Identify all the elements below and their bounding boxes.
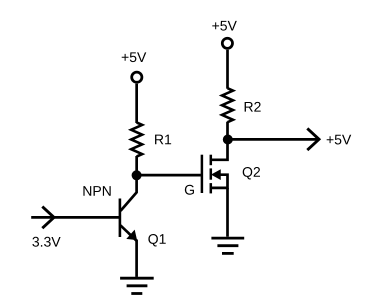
label Q2: [243, 167, 260, 179]
resistor R1: [131, 123, 142, 157]
wire (R1 bottom to node A): [135, 156, 138, 175]
output arrow (+5V): [307, 128, 319, 150]
resistor R2: [222, 88, 233, 122]
label +5V (right supply): [212, 21, 237, 31]
transistor Q1 base bar: [119, 199, 122, 238]
transistor Q2 channel segment 3 (source): [210, 183, 213, 193]
power terminal circle (left +5V): [132, 72, 142, 82]
power terminal circle (right +5V): [222, 38, 232, 48]
label G (gate pin): [185, 185, 194, 195]
wire (body stub down to source stub): [211, 175, 228, 188]
transistor Q2 channel segment 1 (drain): [210, 155, 213, 166]
wire (3.3V input to base): [31, 216, 120, 219]
wire (terminal to R1 top): [135, 84, 138, 123]
label 3.3V: [32, 237, 60, 247]
label Q1: [148, 234, 165, 246]
wire (node B to output arrow): [228, 138, 319, 141]
wire (emitter to ground): [135, 240, 138, 277]
wire (R2 bottom to node B): [226, 122, 229, 140]
label +5V (output): [327, 135, 352, 145]
node A junction dot: [132, 170, 142, 180]
ground (Q1 emitter): [120, 278, 154, 293]
wire (terminal to R2 top): [226, 50, 229, 89]
wire (node B down to Q2 drain stub): [211, 140, 228, 160]
transistor Q2 body arrowhead: [212, 170, 220, 179]
label R2: [245, 102, 261, 112]
wire (Q2 source to ground): [226, 188, 229, 237]
transistor Q2 gate plate: [201, 155, 204, 193]
input arrow (3.3V): [42, 207, 54, 229]
transistor Q1 emitter arrowhead: [128, 231, 137, 240]
ground (Q2 source): [211, 238, 244, 253]
wire (node A down to Q1 collector): [121, 175, 137, 211]
label +5V (left supply): [122, 52, 147, 62]
node B junction dot: [223, 135, 233, 145]
wire (node A to Q2 gate): [137, 174, 201, 177]
label NPN: [83, 186, 110, 196]
transistor Q1 emitter: [120, 225, 136, 240]
label R1: [155, 135, 171, 145]
transistor Q2 channel segment 2 (body): [210, 168, 213, 179]
